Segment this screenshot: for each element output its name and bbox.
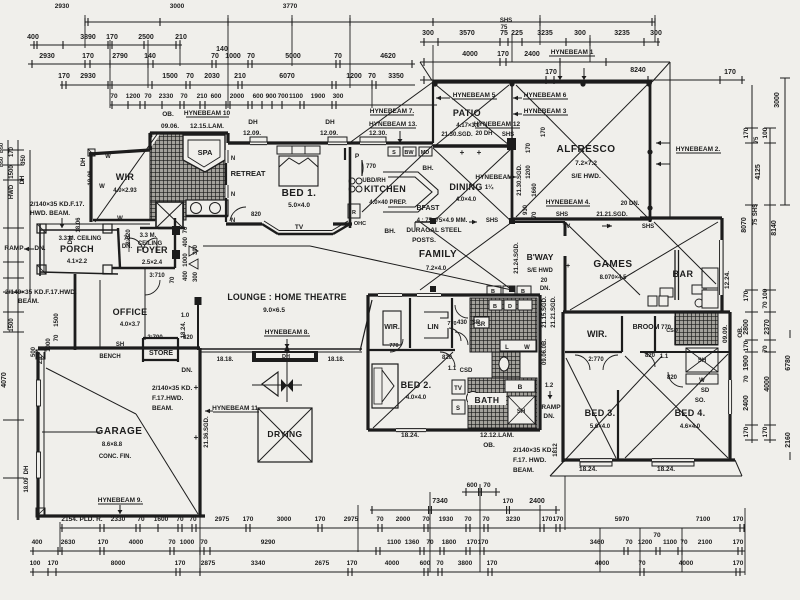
svg-text:SH: SH — [116, 342, 124, 348]
svg-text:70: 70 — [170, 276, 176, 283]
svg-text:300: 300 — [422, 30, 434, 37]
svg-text:HYNEBEAM 4.: HYNEBEAM 4. — [546, 199, 591, 206]
svg-text:SHS: SHS — [642, 224, 654, 230]
svg-text:4620: 4620 — [380, 53, 396, 60]
svg-text:HYNEBEAM 6: HYNEBEAM 6 — [524, 92, 567, 99]
svg-text:820: 820 — [667, 375, 678, 381]
svg-text:70: 70 — [422, 516, 430, 523]
svg-text:70: 70 — [186, 73, 194, 80]
svg-text:DINING: DINING — [449, 182, 482, 192]
svg-text:SR: SR — [472, 320, 481, 326]
svg-text:70: 70 — [638, 560, 646, 567]
svg-text:2.5×2.4: 2.5×2.4 — [142, 260, 163, 266]
svg-text:1100: 1100 — [663, 539, 677, 546]
svg-text:4000: 4000 — [764, 376, 771, 392]
svg-text:430: 430 — [457, 320, 468, 326]
svg-text:170: 170 — [467, 539, 478, 546]
svg-text:900: 900 — [266, 93, 277, 100]
svg-text:S/E HWD.: S/E HWD. — [571, 173, 601, 180]
svg-text:70: 70 — [144, 93, 152, 100]
svg-text:TV.: TV. — [563, 224, 572, 230]
svg-text:21.30.SGD.: 21.30.SGD. — [441, 132, 473, 138]
svg-text:70: 70 — [762, 345, 769, 353]
svg-text:170: 170 — [48, 560, 59, 567]
svg-text:7.2×4.0: 7.2×4.0 — [426, 266, 447, 272]
svg-text:18.24.: 18.24. — [401, 432, 419, 439]
svg-text:70: 70 — [743, 375, 750, 383]
svg-text:3890: 3890 — [80, 34, 96, 41]
svg-text:LIN: LIN — [427, 324, 438, 331]
svg-text:1100: 1100 — [289, 93, 303, 100]
svg-text:400: 400 — [27, 34, 39, 41]
svg-text:18.24.: 18.24. — [579, 466, 597, 473]
svg-text:70: 70 — [110, 93, 118, 100]
svg-text:2975: 2975 — [344, 516, 359, 523]
svg-text:70: 70 — [464, 516, 472, 523]
svg-text:4.0×3.7: 4.0×3.7 — [120, 322, 141, 328]
svg-text:2800: 2800 — [743, 319, 750, 335]
svg-text:3460: 3460 — [590, 539, 605, 546]
svg-text:4.1×2.2: 4.1×2.2 — [67, 259, 88, 265]
svg-text:+: + — [477, 148, 482, 157]
svg-text:2/140×35 KD.F.17.HWD.: 2/140×35 KD.F.17.HWD. — [5, 289, 77, 296]
svg-text:20: 20 — [541, 278, 548, 284]
svg-text:L: L — [505, 345, 509, 351]
svg-text:170: 170 — [106, 34, 118, 41]
svg-text:12.12.LAM.: 12.12.LAM. — [480, 432, 514, 439]
svg-text:SHS: SHS — [502, 132, 514, 138]
svg-text:HYNEBEAM 10: HYNEBEAM 10 — [184, 110, 231, 117]
svg-text:21.36.SGD.: 21.36.SGD. — [204, 416, 210, 448]
svg-text:21.15.SGD.: 21.15.SGD. — [542, 296, 548, 328]
svg-text:225: 225 — [511, 30, 523, 37]
svg-text:OB.: OB. — [737, 326, 744, 338]
svg-text:BED 3.: BED 3. — [585, 408, 616, 418]
svg-text:7.2×7.2: 7.2×7.2 — [575, 160, 597, 167]
svg-text:100: 100 — [30, 560, 41, 567]
svg-text:70: 70 — [532, 211, 538, 218]
svg-text:1.1: 1.1 — [448, 366, 457, 372]
svg-text:8000: 8000 — [111, 560, 126, 567]
svg-text:210: 210 — [175, 34, 187, 41]
svg-text:1.1: 1.1 — [660, 354, 669, 360]
svg-text:1930: 1930 — [439, 516, 454, 523]
svg-text:6070: 6070 — [279, 73, 295, 80]
svg-text:75: 75 — [500, 30, 508, 37]
svg-text:BEAM.: BEAM. — [513, 467, 534, 474]
svg-text:CEILING: CEILING — [138, 241, 163, 247]
svg-text:SPA: SPA — [198, 148, 213, 157]
svg-text:100: 100 — [762, 127, 769, 138]
svg-text:SHS: SHS — [486, 218, 498, 224]
svg-text:170: 170 — [347, 560, 358, 567]
svg-text:PORCH: PORCH — [60, 244, 94, 254]
svg-text:F.17. HWD.: F.17. HWD. — [513, 457, 546, 464]
svg-text:S/E HWD: S/E HWD — [527, 268, 553, 274]
svg-text:600: 600 — [467, 482, 478, 489]
svg-text:170: 170 — [733, 560, 744, 567]
svg-text:6780: 6780 — [785, 355, 792, 371]
svg-text:2/140×35 KD.: 2/140×35 KD. — [513, 447, 553, 454]
svg-text:+: + — [566, 263, 570, 270]
svg-text:170: 170 — [58, 73, 70, 80]
svg-text:DN.: DN. — [181, 367, 192, 374]
svg-text:820: 820 — [251, 212, 262, 218]
svg-text:3340: 3340 — [251, 560, 266, 567]
svg-text:3770: 3770 — [283, 3, 298, 10]
svg-text:170: 170 — [542, 516, 553, 523]
svg-text:OB.: OB. — [162, 111, 174, 118]
svg-text:B'WAY: B'WAY — [527, 252, 554, 262]
svg-text:1000: 1000 — [183, 253, 189, 267]
svg-text:5000: 5000 — [285, 53, 301, 60]
svg-text:12.30.: 12.30. — [369, 130, 387, 137]
svg-text:12.15.LAM.: 12.15.LAM. — [190, 123, 224, 130]
svg-text:140: 140 — [216, 46, 228, 53]
svg-text:400: 400 — [32, 539, 43, 546]
svg-text:BROOM: BROOM — [633, 324, 660, 331]
svg-text:HYNEBEAM 2.: HYNEBEAM 2. — [676, 146, 721, 153]
svg-text:BH.: BH. — [422, 165, 433, 172]
svg-text:4000: 4000 — [679, 560, 694, 567]
svg-text:170: 170 — [82, 53, 94, 60]
svg-text:P: P — [355, 153, 360, 160]
svg-text:3000: 3000 — [774, 92, 781, 108]
svg-text:18.18.: 18.18. — [217, 357, 234, 363]
svg-text:2100: 2100 — [698, 539, 713, 546]
svg-text:2/140×35 KD.: 2/140×35 KD. — [152, 385, 192, 392]
svg-text:W: W — [117, 216, 123, 222]
svg-text:400: 400 — [183, 270, 189, 281]
svg-text:W: W — [699, 378, 705, 384]
svg-text:DN.: DN. — [543, 413, 554, 420]
svg-text:70: 70 — [762, 301, 769, 309]
svg-text:RETREAT: RETREAT — [231, 169, 266, 178]
svg-text:300: 300 — [193, 271, 199, 282]
svg-text:170: 170 — [743, 340, 750, 351]
svg-text:HYNEBEAM 1: HYNEBEAM 1 — [551, 49, 594, 56]
svg-text:140: 140 — [144, 53, 156, 60]
svg-text:70: 70 — [247, 53, 255, 60]
svg-text:5.0×4.0: 5.0×4.0 — [288, 202, 310, 209]
svg-text:170: 170 — [503, 498, 514, 505]
svg-text:HYNEBEAM 9.: HYNEBEAM 9. — [98, 497, 143, 504]
svg-text:170: 170 — [762, 426, 769, 437]
svg-text:2160: 2160 — [785, 432, 792, 448]
svg-text:1¼: 1¼ — [485, 184, 494, 191]
svg-text:18.24.: 18.24. — [657, 466, 675, 473]
svg-text:70: 70 — [200, 539, 208, 546]
svg-text:B: B — [518, 384, 523, 391]
svg-text:TV: TV — [295, 224, 304, 231]
svg-text:SHS: SHS — [753, 204, 759, 216]
svg-text:700: 700 — [278, 93, 289, 100]
svg-text:2400: 2400 — [524, 51, 540, 58]
svg-text:300: 300 — [193, 244, 199, 255]
svg-text:3230: 3230 — [506, 516, 521, 523]
svg-text:3:710: 3:710 — [149, 273, 165, 279]
svg-text:3.3 M.: 3.3 M. — [140, 233, 157, 239]
svg-text:770: 770 — [366, 164, 377, 170]
svg-text:210: 210 — [197, 93, 208, 100]
svg-text:D: D — [508, 304, 512, 310]
svg-text:HYNEBEAM 13.: HYNEBEAM 13. — [369, 121, 417, 128]
svg-text:GARAGE: GARAGE — [96, 426, 143, 437]
svg-text:→: → — [605, 221, 612, 228]
svg-text:2500: 2500 — [138, 34, 154, 41]
svg-text:210: 210 — [234, 73, 246, 80]
svg-text:4000: 4000 — [385, 560, 400, 567]
svg-text:170: 170 — [315, 516, 326, 523]
svg-text:4000: 4000 — [129, 539, 144, 546]
svg-text:BATH: BATH — [475, 395, 500, 405]
svg-text:DH: DH — [24, 466, 30, 475]
svg-text:DN.: DN. — [540, 286, 551, 292]
svg-text:75: 75 — [754, 136, 760, 143]
svg-text:8.070×4.5: 8.070×4.5 — [600, 275, 628, 281]
svg-text:2400: 2400 — [529, 498, 545, 505]
svg-text:21.21.SGD.: 21.21.SGD. — [551, 296, 557, 328]
svg-text:300: 300 — [333, 93, 344, 100]
svg-text:170: 170 — [733, 539, 744, 546]
svg-text:400: 400 — [183, 236, 189, 247]
svg-text:12.09.: 12.09. — [243, 130, 261, 137]
svg-text:770: 770 — [447, 321, 456, 327]
svg-text:170: 170 — [487, 560, 498, 567]
svg-text:20 DH: 20 DH — [475, 131, 492, 137]
svg-text:2630: 2630 — [61, 539, 76, 546]
svg-text:8240: 8240 — [630, 67, 646, 74]
svg-text:BAR: BAR — [673, 269, 694, 279]
svg-text:B50: B50 — [0, 157, 5, 167]
svg-text:S: S — [456, 406, 460, 412]
svg-text:HYNEBEAM: HYNEBEAM — [475, 174, 512, 181]
svg-text:75: 75 — [501, 25, 508, 31]
svg-text:1900: 1900 — [311, 93, 326, 100]
svg-text:DURAGAL STEEL: DURAGAL STEEL — [406, 227, 461, 234]
svg-text:09.06.0B.: 09.06.0B. — [542, 339, 548, 365]
svg-text:170: 170 — [743, 127, 750, 138]
svg-text:18.18.: 18.18. — [328, 357, 345, 363]
svg-text:STORE: STORE — [149, 350, 173, 357]
svg-text:1900: 1900 — [743, 355, 750, 371]
svg-text:70: 70 — [436, 560, 444, 567]
svg-text:+: + — [194, 383, 199, 392]
svg-text:8.6×8.8: 8.6×8.8 — [102, 442, 123, 448]
svg-text:N: N — [231, 192, 235, 198]
svg-text:LOUNGE : HOME THEATRE: LOUNGE : HOME THEATRE — [227, 292, 346, 302]
svg-text:N: N — [231, 156, 235, 162]
svg-text:12.09.: 12.09. — [320, 130, 338, 137]
svg-text:W: W — [99, 184, 105, 190]
svg-text:770: 770 — [389, 343, 398, 349]
svg-text:70: 70 — [483, 482, 491, 489]
svg-text:170: 170 — [733, 516, 744, 523]
svg-text:2000: 2000 — [396, 516, 411, 523]
svg-text:820: 820 — [442, 355, 453, 361]
svg-text:POSTS.: POSTS. — [412, 237, 436, 244]
svg-text:2930: 2930 — [55, 3, 70, 10]
svg-text:70: 70 — [680, 539, 688, 546]
svg-text:1500: 1500 — [54, 313, 60, 327]
svg-text:B50: B50 — [0, 143, 5, 153]
svg-text:5970: 5970 — [615, 516, 630, 523]
svg-text:2:770: 2:770 — [588, 357, 604, 363]
svg-text:170: 170 — [553, 516, 564, 523]
svg-text:70: 70 — [54, 334, 60, 341]
svg-text:09.06.: 09.06. — [161, 123, 179, 130]
svg-text:1100: 1100 — [387, 539, 401, 546]
svg-text:1360: 1360 — [405, 539, 420, 546]
svg-text:2930: 2930 — [39, 53, 55, 60]
svg-text:FAMILY: FAMILY — [419, 249, 457, 260]
svg-text:CSD: CSD — [460, 368, 473, 374]
svg-text:HYNEBEAM 5: HYNEBEAM 5 — [453, 92, 496, 99]
svg-text:2975: 2975 — [215, 516, 230, 523]
svg-text:70: 70 — [180, 93, 188, 100]
svg-text:4.0×4.0: 4.0×4.0 — [406, 395, 427, 401]
svg-text:7100: 7100 — [696, 516, 711, 523]
svg-text:DH: DH — [325, 119, 335, 126]
svg-text:OHC: OHC — [354, 221, 366, 227]
svg-text:WIR: WIR — [116, 172, 135, 182]
svg-text:HWD. BEAM.: HWD. BEAM. — [30, 210, 70, 217]
svg-text:3570: 3570 — [459, 30, 475, 37]
svg-text:N: N — [231, 218, 235, 224]
svg-text:+: + — [194, 433, 199, 442]
svg-text:4000: 4000 — [462, 51, 478, 58]
svg-text:1.2: 1.2 — [545, 383, 554, 389]
svg-text:18.24.: 18.24. — [181, 321, 187, 338]
svg-text:70: 70 — [168, 539, 176, 546]
svg-text:2/140×35 KD.F.17.: 2/140×35 KD.F.17. — [30, 201, 85, 208]
svg-text:OFFICE: OFFICE — [113, 307, 148, 317]
svg-text:GAMES: GAMES — [593, 259, 632, 270]
svg-text:3000: 3000 — [277, 516, 292, 523]
svg-text:2:700: 2:700 — [147, 335, 163, 341]
svg-text:3800: 3800 — [458, 560, 473, 567]
svg-text:BEAM.: BEAM. — [152, 405, 173, 412]
svg-text:HYNEBEAM 3: HYNEBEAM 3 — [524, 108, 567, 115]
svg-text:SD: SD — [701, 388, 710, 394]
svg-text:7340: 7340 — [432, 498, 448, 505]
svg-text:W: W — [105, 154, 111, 160]
svg-text:ALFRESCO: ALFRESCO — [557, 144, 616, 155]
svg-text:1000: 1000 — [180, 539, 195, 546]
svg-text:CSD: CSD — [666, 328, 678, 334]
svg-text:HWD: HWD — [9, 184, 15, 199]
svg-text:OB.: OB. — [483, 442, 495, 449]
svg-text:3350: 3350 — [388, 73, 404, 80]
svg-text:18.09: 18.09 — [24, 477, 30, 493]
svg-text:HYNEBEAM 8.: HYNEBEAM 8. — [265, 329, 310, 336]
svg-text:F.17.HWD.: F.17.HWD. — [152, 395, 184, 402]
svg-text:SH: SH — [698, 358, 706, 364]
svg-text:170: 170 — [243, 516, 254, 523]
svg-text:3000: 3000 — [170, 3, 185, 10]
svg-text:350: 350 — [21, 154, 27, 165]
svg-text:PATIO: PATIO — [453, 108, 481, 118]
svg-text:+: + — [460, 148, 465, 157]
svg-text:2930: 2930 — [80, 73, 96, 80]
svg-text:70: 70 — [368, 73, 376, 80]
svg-text:170: 170 — [526, 142, 532, 153]
svg-text:4.0×40 PREP.: 4.0×40 PREP. — [369, 200, 407, 206]
svg-text:BEAM.: BEAM. — [18, 298, 39, 305]
svg-text:BH.: BH. — [384, 228, 395, 235]
svg-text:1200: 1200 — [126, 93, 141, 100]
svg-text:R: R — [352, 210, 356, 216]
svg-text:DH: DH — [20, 176, 26, 185]
svg-text:170: 170 — [545, 69, 557, 76]
svg-text:B: B — [493, 304, 497, 310]
svg-text:170: 170 — [175, 560, 186, 567]
svg-text:DH: DH — [81, 158, 87, 167]
svg-text:170: 170 — [743, 290, 750, 301]
svg-text:70: 70 — [376, 516, 384, 523]
svg-text:930: 930 — [523, 204, 529, 215]
svg-text:CONC. FIN.: CONC. FIN. — [99, 454, 132, 460]
svg-text:SO.: SO. — [695, 398, 706, 404]
svg-text:2000: 2000 — [230, 93, 245, 100]
svg-text:1200: 1200 — [346, 73, 362, 80]
svg-text:600: 600 — [253, 93, 264, 100]
svg-text:70: 70 — [653, 532, 661, 539]
svg-text:170: 170 — [9, 146, 15, 157]
svg-text:DRYING: DRYING — [267, 429, 302, 439]
svg-text:DH: DH — [282, 354, 290, 360]
svg-text:170: 170 — [497, 51, 509, 58]
svg-text:100: 100 — [762, 288, 769, 299]
svg-text:BW: BW — [404, 150, 414, 156]
svg-text:BED 2.: BED 2. — [401, 380, 432, 390]
svg-text:WIR.: WIR. — [384, 324, 400, 331]
svg-text:HYNEBEAM 11.: HYNEBEAM 11. — [212, 405, 260, 412]
svg-text:4 : 75×75×4.9 MM.: 4 : 75×75×4.9 MM. — [417, 218, 468, 224]
svg-text:600: 600 — [211, 93, 222, 100]
svg-text:820: 820 — [645, 353, 656, 359]
svg-text:1800: 1800 — [442, 539, 457, 546]
svg-text:1500: 1500 — [9, 165, 15, 179]
svg-text:170: 170 — [724, 69, 736, 76]
svg-text:170: 170 — [743, 426, 750, 437]
svg-text:2030: 2030 — [204, 73, 220, 80]
svg-text:1500: 1500 — [9, 318, 15, 332]
svg-text:9.0×6.5: 9.0×6.5 — [263, 307, 285, 314]
svg-text:300: 300 — [650, 30, 662, 37]
svg-text:4.0×4.0: 4.0×4.0 — [456, 197, 477, 203]
svg-text:170: 170 — [541, 126, 547, 137]
svg-text:09.09.: 09.09. — [722, 325, 729, 343]
svg-text:8140: 8140 — [771, 220, 778, 236]
svg-text:3235: 3235 — [614, 30, 630, 37]
svg-text:2400: 2400 — [743, 395, 750, 411]
svg-text:21.24.SGD.: 21.24.SGD. — [514, 242, 520, 274]
svg-text:HYNEBEAM 12: HYNEBEAM 12 — [474, 121, 521, 128]
svg-text:170: 170 — [478, 539, 489, 546]
svg-text:4000: 4000 — [595, 560, 610, 567]
svg-text:DH: DH — [248, 119, 258, 126]
svg-text:12.24.: 12.24. — [724, 271, 731, 289]
svg-text:BED 1.: BED 1. — [282, 188, 317, 199]
svg-text:2675: 2675 — [315, 560, 330, 567]
svg-text:4125: 4125 — [755, 164, 762, 180]
svg-text:4.6×4.0: 4.6×4.0 — [680, 424, 701, 430]
svg-text:1200: 1200 — [526, 165, 532, 179]
svg-text:2330: 2330 — [159, 93, 174, 100]
svg-text:W: W — [524, 345, 530, 351]
svg-text:1660: 1660 — [532, 183, 538, 197]
